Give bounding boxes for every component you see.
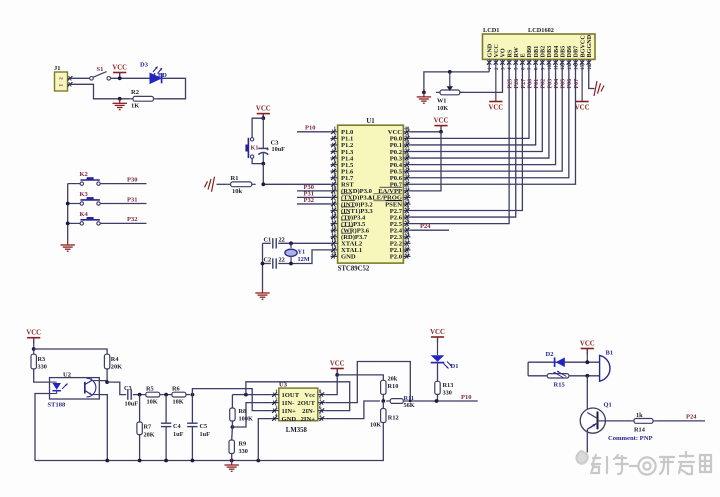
svg-text:10K: 10K <box>147 398 158 405</box>
svg-text:10uF: 10uF <box>125 401 139 408</box>
svg-text:R10: R10 <box>388 383 399 390</box>
svg-text:24: 24 <box>405 232 410 237</box>
wire C1 row to XTAL2 <box>263 242 331 244</box>
svg-text:26: 26 <box>405 219 410 224</box>
resistor R6 10K <box>168 386 190 406</box>
U1 pin 36 P0.3 <box>390 153 411 162</box>
wire U3 pin7 2OUT to output row <box>326 362 411 403</box>
net label P32 (key row) <box>127 216 137 223</box>
junction on LED row <box>118 76 122 80</box>
capacitor C4 1uF <box>161 395 184 461</box>
wire LCD DB7 to MCU P0.7 <box>411 59 576 184</box>
net label P04 (LCD column) <box>554 79 560 89</box>
LCD pin 6 E <box>520 53 527 70</box>
junction collector/R4 <box>105 380 109 384</box>
U2 internal phototransistor <box>85 378 100 397</box>
svg-text:16: 16 <box>331 226 336 231</box>
resistor R7 20K <box>137 395 155 461</box>
svg-text:1uF: 1uF <box>173 431 184 438</box>
svg-text:10k: 10k <box>232 188 243 195</box>
svg-text:22: 22 <box>279 257 285 264</box>
switch S1 <box>90 66 111 80</box>
U3 pin 1 1OUT <box>271 390 300 399</box>
svg-text:37: 37 <box>405 147 410 152</box>
wire R1 to ground <box>217 183 227 185</box>
junction R8/R9 <box>231 425 235 429</box>
junction W1 wiper top <box>448 70 452 74</box>
wire LCD DB4 to MCU P0.4 <box>411 59 556 164</box>
U3 pin 6 2IN- <box>302 406 326 415</box>
svg-text:P02: P02 <box>541 79 547 89</box>
power VCC (reset) <box>256 105 271 119</box>
svg-text:36: 36 <box>405 153 410 158</box>
LCD pin 11 DB4 <box>553 46 560 70</box>
U1 pin 28 P2.7 <box>390 206 411 215</box>
LCD pin 13 DB6 <box>566 46 573 70</box>
svg-text:330: 330 <box>239 448 248 455</box>
ground (W1) <box>417 92 431 103</box>
U3 pin 7 2OUT <box>297 398 325 407</box>
transistor Q1 PNP <box>580 402 612 434</box>
resistor R3 330 <box>31 349 47 371</box>
svg-text:U3: U3 <box>279 382 288 389</box>
net label P10 wire <box>297 131 331 133</box>
svg-text:2: 2 <box>59 77 65 80</box>
wire U3 pin5 2IN+ to divider <box>326 401 380 419</box>
net label P25 (LCD column) <box>508 79 514 89</box>
power VCC (D1) <box>430 329 445 355</box>
svg-text:R14: R14 <box>634 426 646 433</box>
svg-text:33: 33 <box>405 173 410 178</box>
wire R15 row <box>528 375 600 377</box>
svg-text:20: 20 <box>331 252 336 257</box>
svg-text:10K: 10K <box>437 105 448 112</box>
net label P01 (LCD column) <box>534 79 540 89</box>
svg-text:P01: P01 <box>534 79 540 89</box>
U1 pin 40 VCC <box>388 127 411 136</box>
svg-text:1IN-: 1IN- <box>282 400 295 407</box>
U1 pin 18 XTAL2 <box>331 239 363 248</box>
potentiometer W1 10K <box>436 72 464 112</box>
junction output row <box>409 400 412 403</box>
svg-text:10K: 10K <box>370 422 381 429</box>
U2 internal LED <box>50 382 68 393</box>
net label P03 (LCD column) <box>547 79 553 89</box>
wire Q1 emitter down <box>586 429 588 452</box>
net label P10 (output) <box>461 394 471 401</box>
junction bottom rail <box>191 459 195 463</box>
power VCC (buzzer) <box>580 340 595 362</box>
LCD pin 14 DB7 <box>573 46 580 70</box>
svg-text:Vcc: Vcc <box>304 392 315 399</box>
capacitor C1 22 <box>264 236 285 248</box>
wire VCC to EA/VPP <box>411 132 442 191</box>
diode D2 <box>546 351 565 367</box>
wire U2 cathode down to rail <box>35 394 50 461</box>
svg-text:K4: K4 <box>80 211 89 218</box>
U1 pin 14 (T0)P3.4 <box>331 212 367 221</box>
U1 pin 39 P0.0 <box>390 134 411 143</box>
svg-text:VCC: VCC <box>430 329 445 336</box>
svg-text:P24: P24 <box>686 414 697 421</box>
power VCC (sensor) <box>26 330 41 350</box>
net label P26 (LCD column) <box>514 79 520 89</box>
wire key bus vertical <box>67 184 69 241</box>
net label P30 (key row) <box>127 176 137 183</box>
svg-text:22: 22 <box>279 236 285 243</box>
svg-text:Q1: Q1 <box>604 402 612 409</box>
U1 pin 9 RST <box>331 180 355 189</box>
svg-text:R3: R3 <box>38 356 46 363</box>
svg-text:VCC: VCC <box>26 330 41 337</box>
net label P30 wire (MCU side) <box>297 190 331 192</box>
svg-text:P06: P06 <box>567 79 573 89</box>
junction xtal bus C2 row <box>261 262 265 266</box>
wire C3 to R5 <box>133 394 142 396</box>
U1 pin 7 P1.6 <box>331 167 354 176</box>
svg-text:D2: D2 <box>546 351 554 358</box>
U1 pin 24 P2.3 <box>390 232 411 241</box>
svg-text:VCC: VCC <box>580 340 595 347</box>
svg-text:P30: P30 <box>127 176 137 183</box>
wire VCC to U3 pin8 <box>326 375 337 395</box>
wire VCC to R10 <box>337 375 383 380</box>
LCD pin 8 DB1 <box>533 46 540 70</box>
svg-text:17: 17 <box>331 232 336 237</box>
U1 pin 5 P1.4 <box>331 153 354 162</box>
U3 pin 2 1IN- <box>271 398 295 407</box>
crystal Y1 12M <box>285 243 310 263</box>
svg-text:23: 23 <box>405 239 410 244</box>
U1 pin 19 XTAL1 <box>331 245 363 254</box>
ground (reset, slashed) <box>205 177 215 192</box>
svg-text:C1: C1 <box>264 236 272 243</box>
U1 pin 12 (INT0)P3.2 <box>331 199 374 208</box>
svg-text:R1: R1 <box>231 175 239 182</box>
svg-text:P10: P10 <box>305 125 315 132</box>
svg-text:12: 12 <box>331 199 336 204</box>
svg-text:R2: R2 <box>131 89 139 96</box>
svg-text:1uF: 1uF <box>200 431 211 438</box>
wire K4 to net P32 <box>100 222 146 224</box>
svg-text:2IN-: 2IN- <box>302 408 315 415</box>
junction C4 node <box>164 393 168 397</box>
junction at ground (top-left) <box>118 97 122 101</box>
ground (bottom rail) <box>225 461 239 472</box>
power VCC (top-left) <box>112 64 127 78</box>
net label P24 (output) <box>686 414 697 421</box>
svg-text:P27: P27 <box>521 79 527 89</box>
svg-text:VCC: VCC <box>434 117 449 124</box>
wire LCD DB6 to MCU P0.6 <box>411 59 569 177</box>
resistor R10 20k <box>381 376 399 395</box>
LCD pin 12 DB5 <box>559 46 566 70</box>
wire K2 to net P30 <box>100 183 146 185</box>
svg-text:P2.0: P2.0 <box>390 254 403 261</box>
svg-text:LM358: LM358 <box>286 427 308 434</box>
resistor R11 56K <box>386 395 415 409</box>
net label P31 (key row) <box>127 196 137 203</box>
ground (crystal) <box>255 289 269 300</box>
wire S1 to LED D3 <box>111 77 150 79</box>
svg-text:15: 15 <box>331 219 336 224</box>
junction bottom rail <box>230 459 234 463</box>
wire LCD DB5 to MCU P0.5 <box>411 59 563 171</box>
optocoupler U2 ST188 body <box>48 371 100 408</box>
svg-text:31: 31 <box>405 186 410 191</box>
svg-text:GND: GND <box>282 416 297 423</box>
U1 pin 20 GND <box>331 252 356 261</box>
power VCC (MCU) <box>434 117 449 131</box>
wire R5 to R6 <box>164 394 168 396</box>
wire C2 row <box>263 250 331 264</box>
net label P30 (MCU side) <box>304 184 314 191</box>
watermark zhihu <box>577 451 711 475</box>
svg-text:R6: R6 <box>172 386 180 393</box>
svg-text:LCD1602: LCD1602 <box>528 27 554 34</box>
wire J1 pin2 to S1 <box>68 77 90 79</box>
svg-text:LCD1: LCD1 <box>483 27 499 34</box>
LCD pin 5 RW <box>513 46 520 70</box>
svg-text:R4: R4 <box>111 356 120 363</box>
svg-text:R8: R8 <box>239 408 247 415</box>
svg-text:R9: R9 <box>239 441 247 448</box>
wire R11 to P10 node <box>407 400 477 402</box>
svg-text:P31: P31 <box>127 196 137 203</box>
junction crystal top <box>289 241 293 245</box>
U3 pin 5 2IN+ <box>301 414 326 423</box>
LCD pin 16 BGGND <box>586 34 593 70</box>
wire U2 collector to R4 node <box>99 381 107 383</box>
U1 pin 25 P2.4 <box>390 226 411 235</box>
junction VCC reset <box>261 116 265 120</box>
svg-text:20k: 20k <box>388 376 398 383</box>
LCD pin 1 GND <box>486 43 493 70</box>
U1 pin 26 P2.5 <box>390 219 411 228</box>
svg-text:C2: C2 <box>264 257 272 264</box>
connector J1 <box>54 65 72 91</box>
svg-text:R7: R7 <box>144 424 152 431</box>
LCD pin 7 DB0 <box>526 46 533 70</box>
svg-text:P32: P32 <box>304 197 314 204</box>
svg-text:B1: B1 <box>606 350 614 357</box>
net label P10 <box>305 125 315 132</box>
wire D1 to R13 <box>437 363 439 382</box>
wire LCD DB3 to MCU P0.3 <box>411 59 549 158</box>
svg-text:S1: S1 <box>97 66 104 73</box>
svg-text:Y1: Y1 <box>298 249 306 256</box>
U1 pin 21 P2.0 <box>390 252 411 261</box>
svg-text:R5: R5 <box>146 386 154 393</box>
svg-text:29: 29 <box>405 199 410 204</box>
wire LCD pin15 BGVCC down <box>575 59 590 111</box>
junction U3 VCC <box>335 373 339 377</box>
U1 pin 27 P2.6 <box>390 212 411 221</box>
svg-text:20K: 20K <box>144 431 155 438</box>
U3 pin 8 Vcc <box>304 390 325 399</box>
svg-text:U1: U1 <box>366 118 375 125</box>
svg-text:1k: 1k <box>636 412 643 419</box>
key K1 <box>245 138 258 159</box>
junction R7 node <box>138 393 142 397</box>
wire U2 emitter down to rail <box>99 395 107 461</box>
svg-text:VCC: VCC <box>112 64 127 71</box>
ground (LCD backlight, slashed) <box>594 81 604 96</box>
svg-text:40: 40 <box>405 127 410 132</box>
junction C3/K1 node <box>261 162 265 166</box>
ground (top-left) <box>113 99 127 110</box>
U1 pin 34 P0.5 <box>390 167 411 176</box>
wire K1 to C3 bottom node <box>252 158 263 163</box>
LED D3 <box>140 62 167 84</box>
svg-text:VCC: VCC <box>575 105 590 112</box>
svg-text:Comment: PNP: Comment: PNP <box>608 435 653 442</box>
wire LCD E to MCU P2.7 <box>411 59 523 210</box>
ground (key bus) <box>61 241 75 252</box>
svg-text:25: 25 <box>405 226 410 231</box>
wire R3 to U2 anode <box>34 369 50 382</box>
resistor R9 330 <box>229 427 248 461</box>
svg-text:P07: P07 <box>574 79 580 89</box>
svg-text:VCC: VCC <box>488 105 503 112</box>
svg-text:D3: D3 <box>140 62 149 69</box>
junction bottom rail <box>138 459 142 463</box>
wire VCC to K1 <box>252 118 263 137</box>
key K2 <box>68 171 101 185</box>
net label P06 (LCD column) <box>567 79 573 89</box>
svg-text:P24: P24 <box>420 223 431 230</box>
U1 pin 31 EA/VPP <box>378 186 410 195</box>
junction C5 node <box>191 393 195 397</box>
junction key bus row K4 <box>66 222 70 226</box>
svg-text:11: 11 <box>331 193 336 198</box>
svg-text:19: 19 <box>331 245 336 250</box>
svg-text:1: 1 <box>59 83 65 86</box>
net label P32 (MCU side) <box>304 197 314 204</box>
svg-text:R15: R15 <box>554 381 566 388</box>
svg-text:R12: R12 <box>388 415 399 422</box>
U1 pin 29 PSEN <box>385 199 410 208</box>
svg-text:2IN+: 2IN+ <box>301 416 316 423</box>
svg-text:28: 28 <box>405 206 410 211</box>
svg-text:C5: C5 <box>200 423 208 430</box>
buzzer B1 <box>600 350 613 382</box>
net label P00 (LCD column) <box>527 79 533 89</box>
junction divider node <box>381 399 385 403</box>
svg-text:35: 35 <box>405 160 410 165</box>
LED D1 <box>431 355 459 370</box>
svg-text:K2: K2 <box>80 171 88 178</box>
wire signal to U3 pin3 <box>192 389 270 411</box>
wire LCD DB0 to MCU P0.0 <box>411 59 530 138</box>
U1 pin 37 P0.2 <box>390 147 411 156</box>
wire net P24 (MCU) <box>411 229 450 231</box>
wire R13 to output row <box>437 394 439 401</box>
svg-text:22: 22 <box>405 245 410 250</box>
U3 pin 3 1IN+ <box>271 406 297 415</box>
svg-text:2OUT: 2OUT <box>297 400 315 407</box>
junction bottom rail <box>105 459 109 463</box>
U1 pin 17 (RD)P3.7 <box>331 232 368 241</box>
wire R10 to divider node <box>382 394 384 401</box>
svg-text:1IN+: 1IN+ <box>282 408 297 415</box>
svg-text:GND: GND <box>341 254 356 261</box>
wire U3 pin4 GND to rail <box>258 419 270 461</box>
svg-text:P05: P05 <box>561 79 567 89</box>
resistor R5 10K <box>142 386 164 406</box>
svg-text:R13: R13 <box>443 382 454 389</box>
svg-text:P04: P04 <box>554 79 560 89</box>
svg-text:W1: W1 <box>437 98 446 105</box>
wire R2 to J1 pin1 <box>68 84 130 99</box>
U1 pin 6 P1.5 <box>331 160 354 169</box>
U1 pin 13 (INT1)P3.3 <box>331 206 374 215</box>
net label P31 (MCU side) <box>304 191 314 198</box>
net label P24 (MCU) <box>420 223 431 230</box>
junction RST node <box>261 182 265 186</box>
svg-text:21: 21 <box>405 252 410 257</box>
svg-text:P25: P25 <box>508 79 514 89</box>
U1 pin 10 (RXD)P3.0 <box>331 186 373 195</box>
svg-text:ST188: ST188 <box>48 402 66 409</box>
U1 pin 33 P0.6 <box>390 173 411 182</box>
svg-text:1OUT: 1OUT <box>282 392 300 399</box>
U3 pin 4 GND <box>271 414 297 423</box>
wire sensor top rail <box>34 349 107 354</box>
junction bottom rail <box>256 459 260 463</box>
svg-text:20K: 20K <box>111 364 122 371</box>
U1 pin 22 P2.1 <box>390 245 411 254</box>
svg-text:30: 30 <box>405 193 410 198</box>
wire R8 top to 1OUT node <box>232 394 246 396</box>
LCD pin 10 DB3 <box>546 46 553 70</box>
svg-text:P10: P10 <box>461 394 471 401</box>
junction bottom rail <box>164 459 168 463</box>
wire C3 node to RST row <box>263 164 330 185</box>
U1 pin 3 P1.2 <box>331 140 354 149</box>
LCD pin 4 RS <box>506 49 513 70</box>
U1 pin 30 ALE/PROG <box>368 193 411 202</box>
junction sensor VCC <box>32 347 36 351</box>
wire LCD VO pin3 down to W1 <box>460 59 503 92</box>
svg-text:P03: P03 <box>547 79 553 89</box>
wire R14 to P24 <box>657 420 705 422</box>
wire LED D3 to R2 loop <box>158 78 186 99</box>
svg-text:C4: C4 <box>173 423 182 430</box>
svg-text:38: 38 <box>405 140 410 145</box>
junction 1OUT node <box>244 393 248 397</box>
wire LCD RW to MCU P2.6 <box>411 59 516 217</box>
LCD LCD1 LCD1602 body <box>483 27 596 59</box>
wire LCD GND row to pot <box>424 72 489 93</box>
svg-text:K3: K3 <box>80 191 89 198</box>
power VCC (U3) <box>330 360 345 375</box>
U1 pin 1 P1.0 <box>331 127 354 136</box>
resistor R12 10K <box>370 401 399 429</box>
wire 1OUT feedback to 2IN- <box>246 382 350 411</box>
svg-text:12M: 12M <box>298 256 310 263</box>
wire D2 row <box>528 361 600 363</box>
svg-text:D1: D1 <box>451 363 459 370</box>
svg-text:P26: P26 <box>514 79 520 89</box>
capacitor C3 10uF (reset) <box>258 118 285 163</box>
wire LCD pin16 BGGND down <box>589 59 595 88</box>
LCD pin 2 VCC <box>493 44 500 70</box>
wire LCD RS to MCU P2.5 <box>411 59 510 223</box>
wire xtal ground bus <box>262 243 264 288</box>
wire LCD DB2 to MCU P0.2 <box>411 59 543 151</box>
U1 pin 8 P1.7 <box>331 173 354 182</box>
